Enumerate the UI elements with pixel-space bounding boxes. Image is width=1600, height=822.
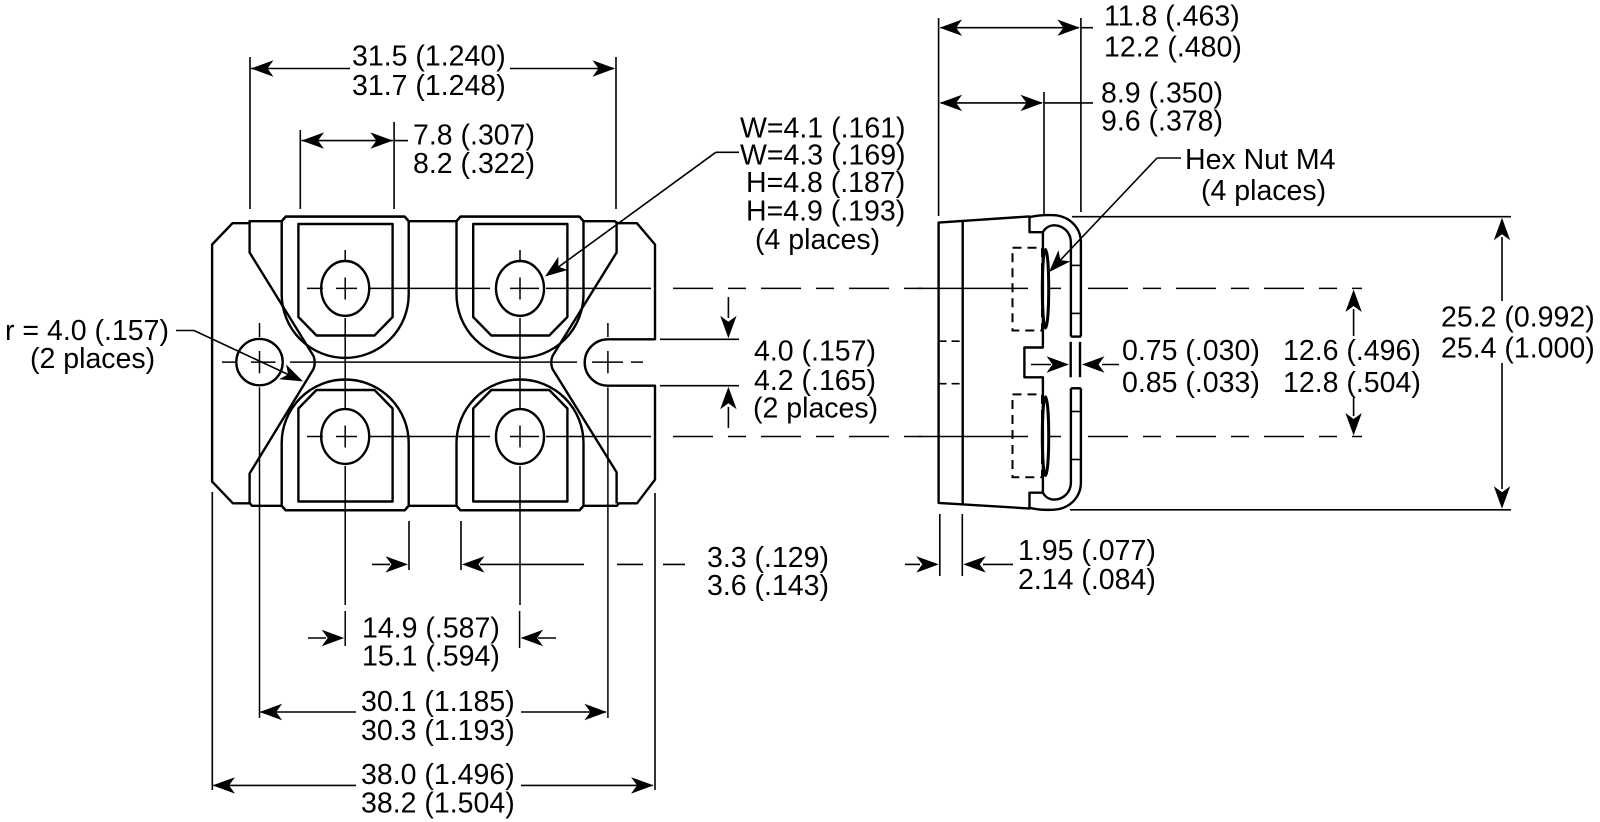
- dim 38.0 arrow left: [213, 777, 236, 793]
- svg-text:2.14 (.084): 2.14 (.084): [1018, 564, 1156, 596]
- svg-text:12.2 (.480): 12.2 (.480): [1104, 32, 1242, 64]
- lower strap hole tick bottom: [1071, 459, 1081, 461]
- centerline row 1 dash-dot right: [1088, 287, 1362, 289]
- svg-text:11.8 (.463): 11.8 (.463): [1104, 1, 1240, 33]
- hex nut lower dashed: [1013, 394, 1043, 477]
- dim 1.95 arrow right head: [916, 556, 939, 572]
- dim 1.95 extension right: [961, 514, 963, 576]
- terminal pad 1 outer (top-left): [282, 217, 409, 358]
- svg-text:0.75 (.030): 0.75 (.030): [1122, 335, 1260, 367]
- svg-text:(4 places): (4 places): [1201, 175, 1326, 207]
- svg-text:4.0 (.157): 4.0 (.157): [754, 336, 876, 368]
- dim 0.75 arrow right shaft: [1031, 364, 1051, 366]
- lower strap hole tick top: [1071, 411, 1081, 413]
- body outline top view: [212, 217, 655, 511]
- dim 30.1 line right: [521, 711, 606, 713]
- terminal pad 3 inner opening: [298, 390, 392, 502]
- dim 4.0 arrow up shaft: [727, 407, 729, 428]
- dim 31.5 extension left: [249, 57, 251, 209]
- svg-text:H=4.8 (.187): H=4.8 (.187): [746, 167, 905, 199]
- dim 4.0 slot extension top: [660, 338, 739, 340]
- svg-text:31.7 (1.248): 31.7 (1.248): [352, 70, 506, 102]
- dim 12.6 arrow up: [1345, 290, 1361, 313]
- dim 4.0 arrow down head: [720, 316, 736, 339]
- svg-text:38.0 (1.496): 38.0 (1.496): [361, 759, 515, 791]
- svg-text:7.8 (.307): 7.8 (.307): [413, 120, 535, 152]
- dim 31.5 arrow left: [251, 60, 274, 76]
- upper strap inner: [1043, 225, 1071, 336]
- dim 11.8 extension right: [1080, 18, 1082, 212]
- dim 25.2 extension top: [1072, 216, 1511, 218]
- dim 3.3 extension right: [460, 521, 462, 570]
- dim 14.9 arrow right shaft: [308, 637, 326, 639]
- dim 38.0 extension left: [211, 492, 213, 790]
- svg-text:30.3 (1.193): 30.3 (1.193): [361, 715, 515, 747]
- dim 7.8 stub: [394, 140, 408, 142]
- hidden line notch lower: [939, 383, 963, 385]
- dim 25.2 arrow up: [1494, 218, 1510, 241]
- centerline row 2 dash-dot: [673, 436, 930, 438]
- centerline row 1 horizontal: [307, 287, 651, 289]
- leader W text stub: [716, 151, 739, 153]
- dim 25.2 extension bottom: [1070, 509, 1511, 511]
- dim 12.6 lower shaft: [1353, 398, 1355, 416]
- dim 7.8 extension left: [299, 130, 301, 209]
- svg-text:25.2 (0.992): 25.2 (0.992): [1441, 302, 1595, 334]
- leader hex nut arrowhead: [1049, 250, 1070, 272]
- centerline row 1 through side view: [918, 287, 1061, 289]
- terminal pad 1 inner opening: [298, 224, 392, 336]
- svg-text:15.1 (.594): 15.1 (.594): [362, 641, 500, 673]
- dim 11.8 arrow right: [1057, 20, 1080, 36]
- left pocket edge and waist curves: [250, 221, 315, 503]
- dim 14.9 arrow right head: [322, 630, 345, 646]
- upper strap hole tick bottom: [1071, 312, 1081, 314]
- centerline slot vertical: [607, 323, 609, 718]
- leader W diagonal: [547, 152, 716, 275]
- middle tab lines: [1071, 342, 1080, 377]
- terminal pad 2 inner opening: [473, 224, 567, 336]
- centerline row 2 horizontal: [307, 436, 651, 438]
- hidden line notch upper: [939, 340, 963, 342]
- leader r stub: [176, 330, 194, 332]
- right pocket edge and waist curves: [551, 221, 616, 503]
- centerline row 1 dash-dot: [673, 287, 930, 289]
- centerline mounting hole horizontal: [222, 361, 623, 363]
- svg-text:30.1 (1.185): 30.1 (1.185): [361, 686, 515, 718]
- centerline mounting hole dash stub: [631, 361, 643, 363]
- mounting hole left: [236, 339, 282, 385]
- dim 31.5 line left: [251, 68, 350, 70]
- base plate inner line: [962, 221, 964, 505]
- dim 8.9 extension right: [1043, 92, 1045, 214]
- terminal screw hole 3: [321, 409, 369, 464]
- lower strap end cap: [1071, 387, 1081, 389]
- svg-text:8.2 (.322): 8.2 (.322): [413, 148, 535, 180]
- dim 1.95 extension left: [939, 514, 941, 576]
- terminal screw hole 4: [496, 409, 544, 464]
- leader W arrowhead: [545, 257, 568, 277]
- terminal pad 4 inner opening: [473, 390, 567, 502]
- dim 38.0 line right: [521, 784, 653, 786]
- dim 0.75 arrow left head: [1082, 356, 1105, 372]
- lower strap outer: [1030, 388, 1081, 510]
- dim 14.9 arrow left head: [521, 630, 544, 646]
- dim 3.3 arrow right head: [386, 556, 409, 572]
- centerline row 2 through side view: [918, 436, 1061, 438]
- svg-text:Hex Nut M4: Hex Nut M4: [1185, 144, 1336, 176]
- svg-text:(2 places): (2 places): [30, 343, 155, 375]
- dim 3.3 extension left: [408, 521, 410, 570]
- dim 8.9 arrow left: [940, 95, 963, 111]
- centerline pad column 1 extension: [344, 611, 346, 646]
- dim 8.9 arrow right: [1021, 95, 1044, 111]
- centerline row 2 dash-dot right: [1088, 436, 1362, 438]
- svg-text:3.6 (.143): 3.6 (.143): [707, 570, 829, 602]
- leader r arrowhead: [279, 364, 303, 381]
- dim 4.0 arrow down shaft: [727, 297, 729, 318]
- svg-text:12.8 (.504): 12.8 (.504): [1283, 367, 1421, 399]
- dim 7.8 arrow left: [302, 132, 325, 148]
- dim 31.5 line right: [510, 68, 614, 70]
- side view body and base plate: [939, 216, 1043, 508]
- dim 14.9 arrow left shaft: [538, 637, 556, 639]
- svg-text:12.6 (.496): 12.6 (.496): [1283, 335, 1421, 367]
- lower strap inner: [1043, 388, 1071, 499]
- centerline pad column 2 extension: [519, 611, 521, 648]
- dim 12.6 arrow down: [1345, 413, 1361, 436]
- dim 30.1 arrow right: [584, 704, 607, 720]
- svg-text:H=4.9 (.193): H=4.9 (.193): [746, 196, 905, 228]
- upper nut face lens: [1042, 249, 1048, 328]
- dim 4.0 arrow up head: [720, 387, 736, 410]
- terminal screw hole 2: [496, 261, 544, 316]
- hex nut upper dashed: [1013, 248, 1043, 331]
- lower nut face lens: [1042, 397, 1048, 476]
- dim 38.0 arrow right: [631, 777, 654, 793]
- dim 11.8 stub: [1081, 27, 1093, 29]
- dim 11.8 extension left: [938, 18, 940, 216]
- dim 3.3 arrow left head: [462, 556, 485, 572]
- dim 1.95 arrow right shaft: [905, 563, 920, 565]
- dim 3.3 line segments: [480, 563, 685, 565]
- dim 4.0 slot extension bottom: [660, 385, 739, 387]
- svg-text:25.4 (1.000): 25.4 (1.000): [1441, 333, 1595, 365]
- dim 0.75 arrow left shaft: [1102, 364, 1119, 366]
- dim 0.75 arrow right head: [1047, 356, 1070, 372]
- dim 12.6 upper shaft: [1353, 309, 1355, 336]
- dim 7.8 line: [302, 140, 393, 142]
- dim 25.2 upper shaft: [1501, 237, 1503, 301]
- leader hex nut diagonal: [1051, 158, 1157, 270]
- dim 31.5 extension right: [615, 57, 617, 209]
- leader hex nut stub: [1157, 157, 1181, 159]
- centerline pad column 1: [344, 250, 346, 605]
- dim 38.0 extension right: [654, 493, 656, 790]
- leader r diagonal: [194, 331, 301, 381]
- dim 11.8 arrow left: [940, 20, 963, 36]
- upper strap outer: [1030, 215, 1081, 337]
- dim 11.8 line: [941, 27, 1079, 29]
- centerline pad column 2: [519, 250, 521, 605]
- dim 7.8 extension right: [393, 122, 395, 209]
- svg-text:38.2 (1.504): 38.2 (1.504): [361, 788, 515, 820]
- upper strap end cap: [1071, 335, 1081, 337]
- dim 3.3 arrow right shaft: [372, 563, 390, 565]
- svg-text:1.95 (.077): 1.95 (.077): [1018, 535, 1156, 567]
- terminal pad 3 outer (bottom-left): [282, 380, 409, 511]
- dim 1.95 arrow left head: [963, 556, 986, 572]
- upper strap hole tick top: [1071, 264, 1081, 266]
- dim 8.9 stub: [1044, 102, 1093, 104]
- terminal pad 2 outer (top-right): [457, 217, 584, 358]
- dim 25.2 arrow down: [1494, 486, 1510, 509]
- svg-text:(2 places): (2 places): [753, 393, 878, 425]
- dim 30.1 arrow left: [260, 704, 283, 720]
- svg-text:(4 places): (4 places): [755, 224, 880, 256]
- svg-text:31.5 (1.240): 31.5 (1.240): [352, 41, 506, 73]
- terminal screw hole 1: [321, 261, 369, 316]
- dim 8.9 line: [941, 102, 1042, 104]
- centerline mounting hole vertical: [259, 323, 261, 718]
- dim 38.0 line left: [214, 784, 357, 786]
- svg-text:0.85 (.033): 0.85 (.033): [1122, 367, 1260, 399]
- dim 25.2 lower shaft: [1501, 363, 1503, 489]
- dim 1.95 arrow left shaft: [983, 563, 1013, 565]
- terminal pad 4 outer (bottom-right): [457, 380, 584, 511]
- svg-text:9.6 (.378): 9.6 (.378): [1101, 106, 1223, 138]
- dim 31.5 arrow right: [593, 60, 616, 76]
- dim 30.1 line left: [261, 711, 356, 713]
- dim 7.8 arrow right: [370, 132, 393, 148]
